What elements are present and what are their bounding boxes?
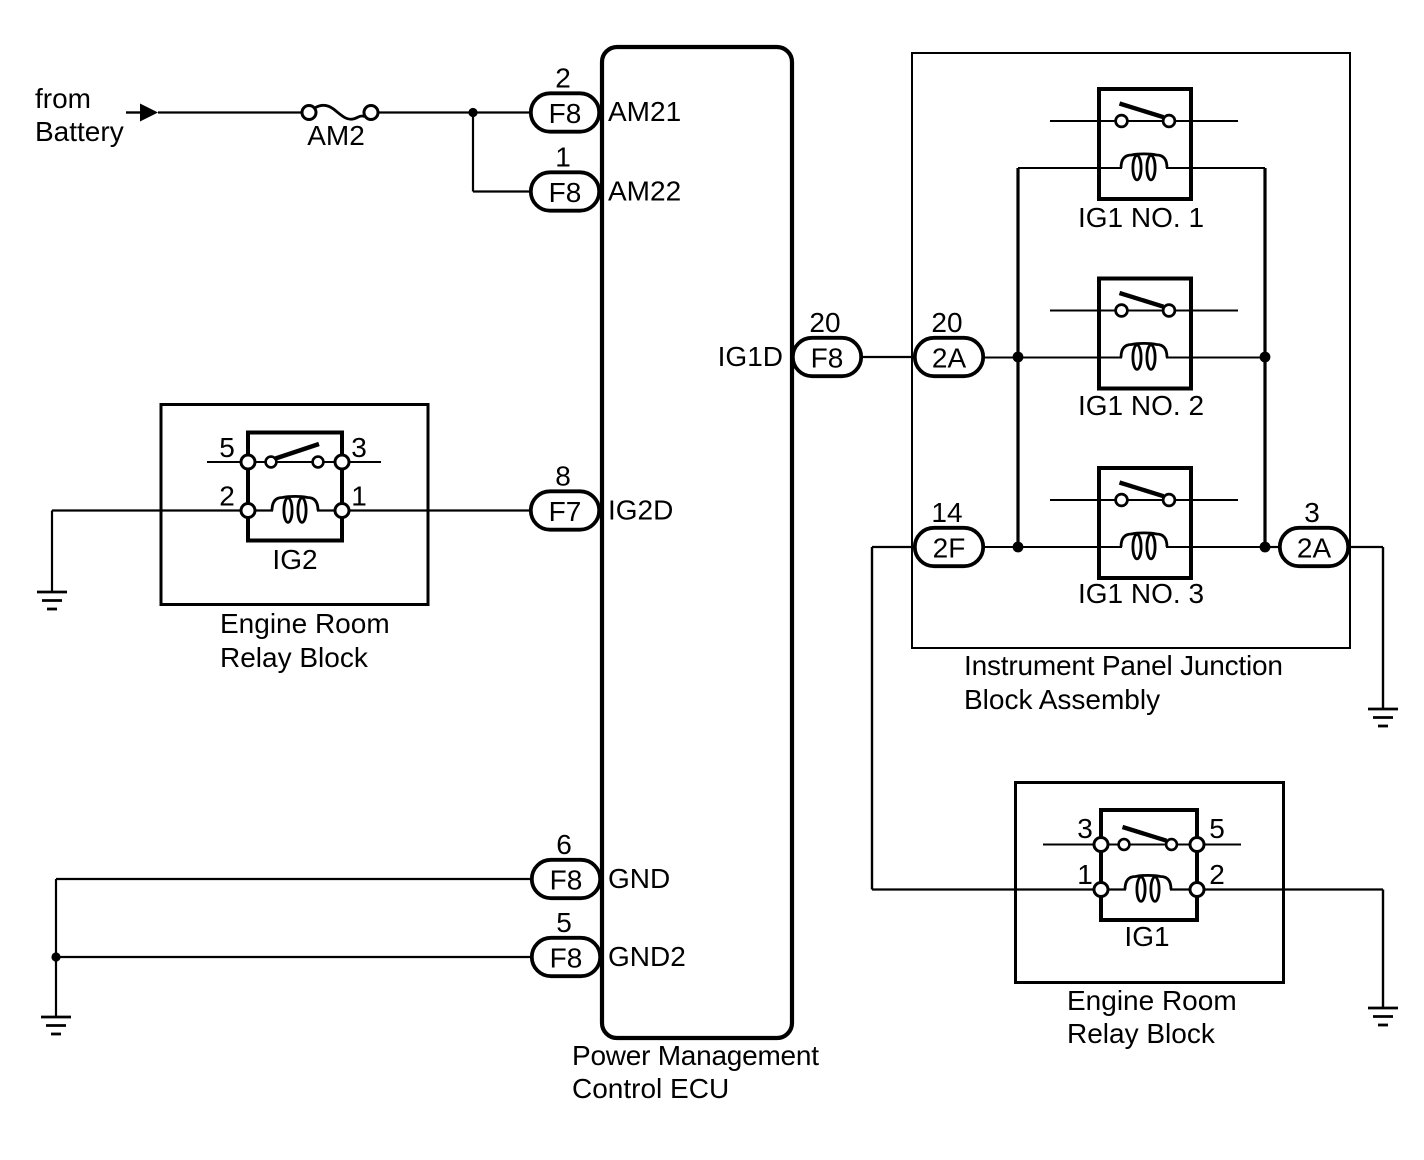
- ground (ECU GND): [41, 1017, 71, 1034]
- svg-text:2: 2: [555, 63, 571, 94]
- IG1 pin circles: [1094, 838, 1204, 897]
- ground (IG1): [1368, 1008, 1398, 1025]
- wire down to ground (IG1): [1382, 890, 1384, 1009]
- svg-text:GND: GND: [608, 863, 670, 894]
- ground (IG2): [37, 592, 67, 609]
- svg-text:GND2: GND2: [608, 941, 686, 972]
- wire from IG1 NO. 3 coil right: [1166, 546, 1265, 548]
- svg-text:Instrument Panel Junction: Instrument Panel Junction: [964, 650, 1283, 681]
- svg-text:AM21: AM21: [608, 96, 681, 127]
- svg-text:2A: 2A: [1297, 533, 1332, 564]
- wire junction right bus / 2A pin 3 line: [1260, 542, 1271, 553]
- svg-text:Relay Block: Relay Block: [1067, 1018, 1216, 1049]
- IG1 coil: [1125, 875, 1171, 901]
- svg-text:IG1 NO. 3: IG1 NO. 3: [1078, 578, 1204, 609]
- wire right bus vertical: [1263, 168, 1266, 547]
- connector F8 pin 5 (GND2): [532, 938, 600, 976]
- wire 2F to left: [872, 546, 915, 548]
- wire IG1 NO. 1 switch line: [1050, 120, 1238, 122]
- svg-text:IG2D: IG2D: [608, 495, 673, 526]
- IG1 NO. 1 coil: [1121, 154, 1167, 180]
- connector F7 pin 8 (IG2D): [531, 491, 599, 529]
- svg-text:3: 3: [1077, 813, 1093, 844]
- svg-text:14: 14: [931, 497, 962, 528]
- connector F8 pin 1 (AM22): [531, 172, 599, 210]
- wire battery to fuse AM2: [158, 111, 302, 113]
- wire IG1D F8 to 2A: [861, 356, 915, 358]
- wire IG2 pin 2 to ground run: [52, 509, 273, 511]
- wire fuse to pin AM21: [378, 111, 531, 113]
- svg-text:2F: 2F: [933, 533, 966, 564]
- svg-text:AM22: AM22: [608, 176, 681, 207]
- wire to IG1 coil pin 1: [872, 888, 1126, 890]
- svg-text:Control ECU: Control ECU: [572, 1073, 729, 1104]
- connector F8 pin 6 (GND): [532, 860, 600, 898]
- IG1 NO. 3 coil: [1121, 533, 1167, 559]
- wire 2F vertical down: [871, 547, 873, 890]
- IG1 NO. 1 switch contacts: [1116, 104, 1175, 127]
- IG1 NO. 2 coil: [1121, 343, 1167, 369]
- fuse AM2: [302, 105, 378, 119]
- svg-text:20: 20: [931, 307, 962, 338]
- connector 2A pin 20: [915, 338, 983, 376]
- wire IG1 NO. 2 switch line: [1050, 309, 1238, 311]
- wire IG1 pin 2 to ground run: [1170, 888, 1383, 890]
- svg-text:IG2: IG2: [272, 544, 317, 575]
- wire branch down to AM22: [472, 113, 474, 192]
- arrow from battery: [140, 104, 158, 122]
- svg-text:20: 20: [809, 307, 840, 338]
- wire junction left bus / 2A line: [1013, 352, 1024, 363]
- Engine Room Relay Block (right) box: [1016, 783, 1284, 983]
- wire GND2 to left: [56, 956, 531, 958]
- wire IG1 NO. 3 switch line: [1050, 499, 1238, 501]
- wire junction GND/GND2: [51, 952, 60, 961]
- IG2 pin circles: [241, 455, 349, 518]
- wire junction battery branch: [468, 108, 477, 117]
- Engine Room Relay Block (left) box: [161, 405, 428, 605]
- wire to IG1 NO. 2 coil left: [983, 356, 1122, 358]
- wire from battery stub: [126, 111, 140, 113]
- svg-text:IG1 NO. 1: IG1 NO. 1: [1078, 202, 1204, 233]
- wire IG2 pin 1 to F7: [317, 509, 531, 511]
- svg-text:IG1: IG1: [1124, 921, 1169, 952]
- svg-text:3: 3: [1304, 497, 1320, 528]
- svg-text:1: 1: [351, 481, 367, 512]
- IG1 NO. 3 switch contacts: [1116, 483, 1175, 506]
- svg-text:F8: F8: [550, 865, 583, 896]
- wire down to ground (IG2): [51, 511, 53, 593]
- wire right bus to 2A pin 3: [1265, 546, 1279, 548]
- relay IG2: [248, 433, 342, 541]
- wire 2A pin 3 to ground drop: [1349, 546, 1383, 548]
- IG2 switch contacts and blade: [266, 444, 324, 467]
- wire from IG1 NO. 1 coil right: [1166, 167, 1265, 169]
- wire junction left bus / 2F line: [1013, 542, 1024, 553]
- svg-text:AM2: AM2: [307, 120, 365, 151]
- svg-text:2A: 2A: [932, 343, 967, 374]
- svg-text:5: 5: [1209, 813, 1225, 844]
- wire to IG1 NO. 1 coil left: [1018, 167, 1122, 169]
- wire to IG1 NO. 3 coil left: [983, 546, 1122, 548]
- svg-text:3: 3: [351, 432, 367, 463]
- svg-text:Engine Room: Engine Room: [220, 608, 390, 639]
- wire branch to pin AM22: [473, 190, 531, 192]
- relay IG1 NO. 1: [1099, 89, 1191, 199]
- svg-text:Engine Room: Engine Room: [1067, 985, 1237, 1016]
- svg-text:Power Management: Power Management: [572, 1040, 819, 1071]
- svg-text:2: 2: [1209, 859, 1225, 890]
- svg-text:from: from: [35, 83, 91, 114]
- relay IG1 NO. 3: [1099, 468, 1191, 578]
- wire GND to left: [56, 878, 531, 880]
- svg-text:F8: F8: [549, 177, 582, 208]
- wire IG1 switch line: [1043, 843, 1241, 845]
- svg-text:F8: F8: [811, 343, 844, 374]
- svg-text:1: 1: [1077, 859, 1093, 890]
- svg-text:2: 2: [219, 481, 235, 512]
- connector F8 pin 2 (AM21): [531, 93, 599, 131]
- wire junction right bus / coil 2 line: [1260, 352, 1271, 363]
- svg-text:6: 6: [556, 829, 572, 860]
- svg-text:F8: F8: [549, 98, 582, 129]
- connector 2A pin 3: [1280, 528, 1348, 566]
- wire IG2 switch line: [207, 461, 381, 463]
- svg-text:Block Assembly: Block Assembly: [964, 684, 1160, 715]
- wire GND down: [55, 879, 57, 1017]
- wire left bus vertical: [1016, 168, 1019, 547]
- svg-text:IG1D: IG1D: [718, 341, 783, 372]
- svg-text:8: 8: [555, 461, 571, 492]
- svg-text:Relay Block: Relay Block: [220, 642, 369, 673]
- relay IG1 NO. 2: [1099, 279, 1191, 389]
- ECU Power Management Control ECU box: [602, 47, 792, 1038]
- svg-text:5: 5: [219, 432, 235, 463]
- Instrument Panel Junction Block Assembly box: [912, 53, 1350, 648]
- svg-text:1: 1: [555, 142, 571, 173]
- svg-text:F8: F8: [550, 943, 583, 974]
- svg-text:IG1 NO. 2: IG1 NO. 2: [1078, 390, 1204, 421]
- relay IG1: [1101, 810, 1197, 920]
- svg-text:F7: F7: [549, 496, 582, 527]
- ground (junction block): [1368, 709, 1398, 726]
- connector F8 pin 20 (IG1D): [793, 338, 861, 376]
- IG1 NO. 2 switch contacts: [1116, 293, 1175, 316]
- connector 2F pin 14: [915, 528, 983, 566]
- IG1 switch contacts and blade: [1119, 827, 1177, 850]
- IG2 coil: [272, 496, 318, 522]
- svg-text:Battery: Battery: [35, 116, 124, 147]
- wire down to ground (junction block): [1382, 547, 1384, 709]
- svg-text:5: 5: [556, 907, 572, 938]
- wire from IG1 NO. 2 coil right: [1166, 356, 1265, 358]
